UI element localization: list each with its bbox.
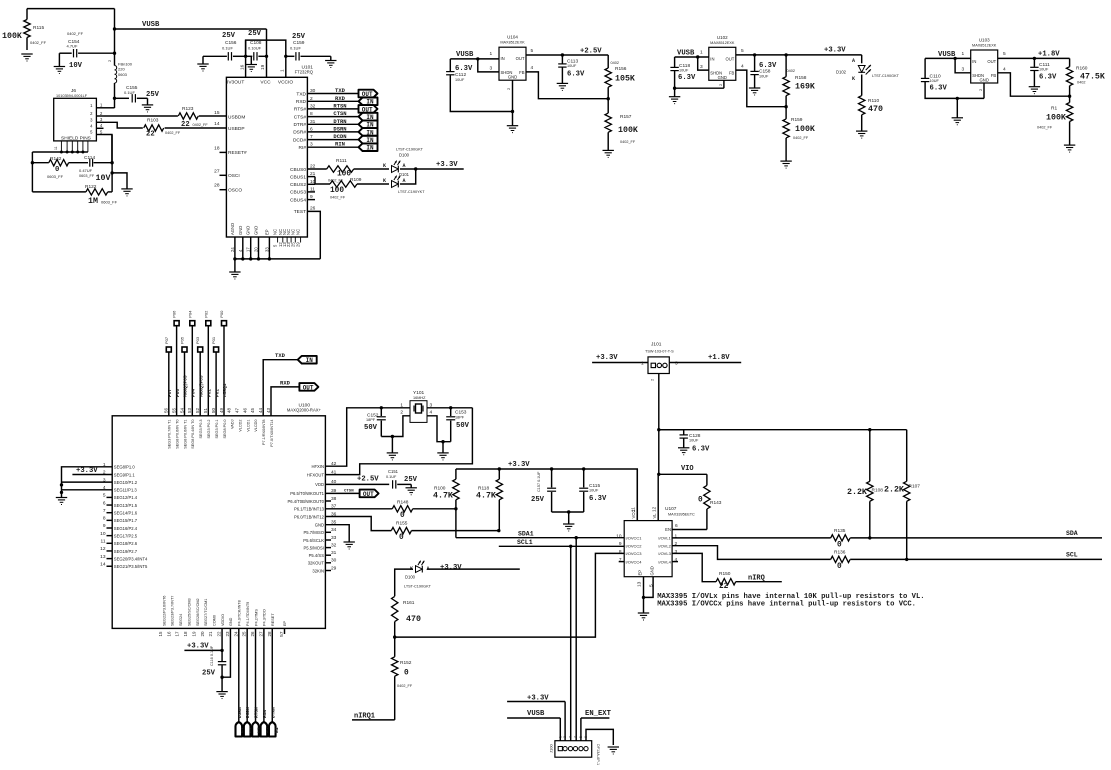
ground left of C156 — [197, 56, 208, 71]
svg-text:GND: GND — [229, 617, 233, 626]
svg-text:29: 29 — [296, 242, 301, 247]
svg-text:+3.3V: +3.3V — [440, 564, 462, 572]
svg-text:D100: D100 — [399, 153, 410, 158]
svg-text:16MHZ: 16MHZ — [413, 396, 426, 400]
svg-text:54: 54 — [179, 407, 184, 413]
svg-text:33: 33 — [331, 535, 337, 541]
svg-text:9: 9 — [619, 541, 622, 547]
svg-text:C151: C151 — [388, 469, 399, 474]
svg-text:SHIELD PINS: SHIELD PINS — [61, 136, 91, 142]
U107 IOVL4 stub — [672, 561, 678, 563]
U101 pin DTR# -> DTRN flag — [293, 118, 377, 129]
svg-text:P06: P06 — [175, 389, 181, 397]
svg-text:0: 0 — [404, 670, 409, 678]
wire VUSB drop to VCC — [266, 29, 268, 56]
svg-text:SEG25/SC/CM3: SEG25/SC/CM3 — [187, 598, 191, 626]
svg-text:R107: R107 — [909, 484, 921, 490]
capacitor C111 — [1030, 58, 1057, 86]
svg-text:R161: R161 — [403, 600, 415, 606]
ground U103 — [952, 98, 963, 124]
svg-text:I/OVCC3: I/OVCC3 — [626, 551, 643, 556]
svg-text:MAX8512EXK: MAX8512EXK — [972, 44, 997, 48]
svg-text:P07: P07 — [167, 389, 173, 397]
svg-text:100K: 100K — [2, 32, 22, 41]
svg-text:SEG8 P0.6/IN T1: SEG8 P0.6/IN T1 — [183, 420, 187, 449]
svg-text:P01: P01 — [211, 336, 216, 344]
svg-text:nIRQ: nIRQ — [748, 575, 765, 583]
wire pin43 to RXD flag — [271, 379, 299, 416]
svg-text:R111: R111 — [336, 158, 347, 164]
U100 port net names — [167, 375, 228, 397]
net +3.3V at VDDIO — [184, 628, 223, 652]
ground crystal left — [387, 437, 398, 460]
net +3.3V at J101 — [592, 354, 648, 363]
capacitor C113 — [558, 55, 585, 83]
wire junction to U107 IOVCC3 — [395, 553, 625, 637]
svg-text:EP: EP — [264, 229, 269, 235]
svg-text:100K: 100K — [618, 126, 638, 135]
U101 pin TXD -> TXD flag — [296, 87, 377, 98]
svg-text:14: 14 — [214, 121, 220, 127]
wire D100 cathode down — [395, 569, 413, 596]
net VUSB — [113, 21, 267, 31]
svg-text:TXD: TXD — [275, 352, 286, 359]
svg-text:MAX3395 I/OVLx pins have inter: MAX3395 I/OVLx pins have internal 10K pu… — [657, 593, 924, 601]
svg-text:2: 2 — [563, 736, 567, 738]
svg-text:10: 10 — [100, 531, 106, 537]
resistor R143 — [698, 474, 722, 529]
svg-text:MAX8512EXK: MAX8512EXK — [710, 41, 735, 45]
svg-text:0.1UF: 0.1UF — [386, 475, 397, 479]
svg-text:SEG3 P0.3: SEG3 P0.3 — [199, 420, 203, 439]
svg-text:100K: 100K — [1046, 114, 1066, 123]
svg-text:R160: R160 — [1076, 66, 1088, 72]
wire pin4 to gnd — [62, 489, 113, 491]
svg-text:100K: 100K — [795, 125, 815, 134]
svg-text:470: 470 — [406, 615, 421, 624]
svg-text:25: 25 — [290, 242, 295, 247]
svg-text:10V: 10V — [69, 62, 83, 70]
net +2.5V — [580, 48, 602, 56]
capacitor C112 on VUSB — [446, 59, 512, 112]
svg-text:31: 31 — [331, 550, 337, 556]
svg-text:RIN: RIN — [335, 141, 345, 148]
U101 pin CTS# -> CTSN flag — [294, 110, 378, 121]
svg-text:I/OVL1: I/OVL1 — [658, 536, 671, 541]
svg-text:EN_EXT: EN_EXT — [585, 710, 612, 718]
connector J101 — [641, 342, 678, 382]
svg-text:10UF: 10UF — [567, 64, 577, 68]
J6 pins 1-5 — [90, 103, 103, 135]
svg-text:22: 22 — [146, 131, 155, 139]
shield bus wire — [32, 152, 88, 192]
svg-text:DTRN: DTRN — [333, 118, 346, 125]
svg-text:RXD: RXD — [335, 95, 346, 102]
svg-text:RIN: RIN — [262, 710, 268, 718]
U101 pin CBUS2 — [290, 179, 316, 188]
svg-text:44: 44 — [258, 407, 263, 413]
U107 EP GND pins — [637, 566, 655, 599]
svg-text:SEG26/SC/CM2: SEG26/SC/CM2 — [196, 598, 200, 626]
svg-text:VLCD2: VLCD2 — [238, 420, 242, 432]
svg-text:0: 0 — [698, 497, 703, 505]
wire shield right vertical — [110, 135, 113, 192]
svg-text:R148: R148 — [397, 500, 409, 506]
svg-text:MAXQ|P05: MAXQ|P05 — [183, 375, 189, 397]
svg-text:17: 17 — [246, 247, 251, 252]
svg-text:21: 21 — [208, 631, 213, 637]
svg-text:P05: P05 — [180, 336, 185, 344]
svg-text:DCD#: DCD# — [293, 137, 306, 143]
svg-text:19: 19 — [191, 631, 196, 637]
resistor R123 — [178, 106, 208, 129]
svg-text:6.3V: 6.3V — [589, 495, 607, 503]
svg-text:RESET#: RESET# — [228, 150, 247, 156]
svg-text:LTST-C190GKT: LTST-C190GKT — [404, 585, 432, 589]
svg-text:+3.3V: +3.3V — [824, 47, 846, 55]
ground R110 — [856, 131, 867, 138]
svg-text:RI#: RI# — [299, 145, 307, 151]
svg-text:51: 51 — [203, 407, 208, 413]
wire pin1 to gnd — [60, 467, 112, 498]
svg-text:0.47UF: 0.47UF — [79, 168, 93, 173]
svg-text:OUT: OUT — [363, 491, 374, 498]
svg-text:EP: EP — [638, 570, 643, 576]
svg-text:25V: 25V — [292, 33, 306, 41]
wire J6 pin2 USBDM — [104, 115, 178, 117]
wire HFXIN to crystal pin1 — [325, 406, 410, 466]
resistor R155 — [391, 521, 411, 543]
wire R148 to junction — [413, 507, 458, 510]
svg-text:MAX3395 I/OVCCx pins have inte: MAX3395 I/OVCCx pins have internal pull-… — [657, 601, 916, 609]
svg-text:20: 20 — [254, 247, 259, 252]
U100 port terminals lower row — [164, 336, 219, 416]
svg-text:MAXQ|P03: MAXQ|P03 — [198, 375, 204, 397]
svg-text:P07: P07 — [164, 336, 169, 344]
resistor R1 — [1037, 96, 1073, 145]
svg-text:K: K — [852, 76, 855, 82]
wire to ground tap — [112, 173, 127, 189]
svg-text:R152: R152 — [400, 660, 412, 666]
svg-text:0.1UF: 0.1UF — [290, 46, 301, 51]
svg-text:0402_FF: 0402_FF — [193, 123, 209, 127]
svg-text:K: K — [383, 178, 386, 184]
svg-text:DCDN: DCDN — [245, 707, 251, 718]
wire TEST to gnd bus — [307, 211, 320, 259]
svg-text:R156: R156 — [615, 66, 627, 72]
svg-text:56: 56 — [164, 407, 169, 413]
svg-text:VADJ: VADJ — [231, 419, 235, 429]
capacitor C158 — [750, 55, 777, 88]
svg-text:4.7K: 4.7K — [433, 492, 453, 501]
capacitor C154 — [59, 29, 116, 70]
U101 pin27 OSCI — [214, 168, 240, 179]
svg-text:I/OVCC4: I/OVCC4 — [626, 559, 643, 564]
svg-text:32: 32 — [331, 542, 337, 548]
U102 GND wire — [718, 80, 724, 88]
svg-text:+3.3V: +3.3V — [187, 643, 209, 651]
svg-text:GND: GND — [254, 226, 259, 235]
svg-text:OUT: OUT — [725, 56, 734, 61]
svg-text:P7.0/TX0/INT14: P7.0/TX0/INT14 — [270, 420, 274, 447]
svg-text:R157: R157 — [620, 114, 632, 120]
capacitor C156 — [203, 32, 246, 61]
resistor R110 — [859, 96, 883, 132]
svg-text:0603_FF: 0603_FF — [47, 174, 64, 179]
svg-text:3: 3 — [569, 736, 573, 738]
svg-text:SCL1: SCL1 — [517, 539, 533, 546]
svg-text:+3.3V: +3.3V — [596, 354, 618, 362]
crystal pin4 wire — [427, 416, 451, 444]
svg-text:43: 43 — [266, 407, 271, 413]
svg-text:RXD: RXD — [280, 379, 291, 386]
svg-text:SEG8 P0.6/IN T0: SEG8 P0.6/IN T0 — [175, 420, 179, 449]
svg-text:0402: 0402 — [611, 61, 619, 65]
svg-text:0: 0 — [55, 166, 59, 174]
U103 SHDN wire — [955, 58, 971, 72]
svg-text:1: 1 — [400, 403, 403, 409]
svg-text:3V3OUT: 3V3OUT — [226, 80, 245, 86]
svg-text:J100: J100 — [549, 744, 554, 753]
svg-text:C157 0.1UF: C157 0.1UF — [537, 471, 541, 492]
IC U103 MAX8512 box — [971, 38, 998, 84]
svg-text:15: 15 — [158, 631, 163, 637]
wire J6 pin1 to VUSB — [104, 107, 115, 109]
svg-text:K: K — [383, 163, 386, 169]
svg-text:SEG10/P1.2: SEG10/P1.2 — [114, 480, 138, 485]
ground R159 — [780, 161, 791, 168]
svg-text:0402_FF: 0402_FF — [330, 196, 346, 200]
capacitor C128 — [659, 430, 710, 454]
pin19 wire VCC — [260, 55, 268, 78]
svg-text:U103: U103 — [979, 38, 990, 43]
IC U104 MAX8512 box — [499, 35, 526, 80]
svg-text:U107: U107 — [665, 506, 677, 512]
U107 VL pin12 — [652, 474, 659, 520]
svg-text:R155: R155 — [396, 521, 408, 527]
svg-text:14: 14 — [100, 561, 106, 567]
wire pin23 gnd — [222, 628, 230, 677]
U102 FB wire — [736, 64, 786, 107]
svg-text:SEG3 P0.2: SEG3 P0.2 — [207, 420, 211, 439]
ground under R115 — [21, 54, 32, 61]
svg-text:1: 1 — [280, 69, 286, 72]
svg-text:49: 49 — [219, 407, 224, 413]
capacitor C157 — [531, 469, 556, 512]
U100 right pin names — [287, 461, 336, 573]
U101 pin18 RESET# — [214, 145, 247, 156]
svg-text:D100: D100 — [405, 575, 416, 580]
svg-text:DTR#: DTR# — [293, 122, 306, 128]
ground U101 — [229, 259, 240, 279]
svg-text:DSRN: DSRN — [237, 707, 243, 718]
U101 pin RTS# -> RTSN flag — [294, 102, 378, 113]
svg-text:19: 19 — [260, 64, 266, 70]
svg-text:P03: P03 — [195, 336, 200, 344]
net +2.5V at VDD — [325, 476, 389, 485]
svg-text:6.3V: 6.3V — [692, 446, 710, 454]
wire R115 top to VUSB rail — [27, 9, 115, 29]
svg-text:18PF: 18PF — [366, 418, 376, 422]
capacitor C114 — [79, 155, 114, 183]
svg-text:55: 55 — [171, 407, 176, 413]
svg-text:1: 1 — [962, 51, 965, 57]
svg-text:470: 470 — [868, 105, 883, 114]
resistor R161 — [392, 596, 421, 637]
svg-text:FB: FB — [729, 70, 735, 75]
svg-text:5: 5 — [1003, 51, 1006, 57]
wire IOVL1 to R135 — [672, 537, 831, 539]
svg-text:GND: GND — [508, 75, 517, 80]
wire pin44 to TXD flag — [263, 352, 298, 416]
svg-text:OSCI: OSCI — [228, 173, 240, 179]
svg-text:4: 4 — [531, 65, 534, 71]
svg-text:HFXOUT: HFXOUT — [307, 472, 325, 477]
U107 EN pin6 — [665, 523, 678, 532]
svg-text:1: 1 — [558, 736, 562, 738]
ground C128 — [678, 448, 689, 455]
U101 ground bus — [235, 258, 320, 260]
svg-text:29: 29 — [331, 565, 337, 571]
svg-text:169K: 169K — [795, 83, 815, 92]
svg-text:GND: GND — [246, 226, 251, 235]
svg-text:12: 12 — [100, 546, 106, 552]
wire IOVL3 to R150 — [672, 553, 716, 581]
resistor R142 — [31, 156, 88, 179]
svg-text:I/OVL4: I/OVL4 — [658, 559, 671, 564]
ground right of C159 — [325, 56, 336, 67]
svg-text:11: 11 — [631, 507, 637, 512]
svg-text:SEG14/P1.6: SEG14/P1.6 — [114, 511, 138, 516]
svg-text:6: 6 — [675, 523, 678, 529]
svg-text:26: 26 — [250, 631, 255, 637]
ground pin35 — [344, 542, 355, 549]
svg-text:I/OVCC1: I/OVCC1 — [626, 536, 643, 541]
resistor R103 — [144, 118, 181, 139]
svg-text:SEG15/P1.7: SEG15/P1.7 — [114, 518, 138, 523]
capacitor C153 — [446, 408, 469, 442]
U101 pin GND 20 — [254, 226, 261, 261]
svg-text:38: 38 — [331, 496, 337, 502]
U100 top pin names — [168, 419, 274, 448]
IC U101 FT232RQ box — [226, 65, 313, 238]
capacitor C118 — [670, 57, 724, 90]
svg-text:3: 3 — [962, 67, 965, 73]
svg-text:VL: VL — [652, 513, 657, 519]
svg-text:CTS#: CTS# — [294, 114, 307, 120]
svg-text:I/OVL3: I/OVL3 — [658, 551, 671, 556]
U107 left pins IOVCC — [616, 533, 642, 564]
U101 pin EP 33 — [264, 229, 271, 260]
svg-text:SEG27/TC/CM1: SEG27/TC/CM1 — [204, 599, 208, 626]
svg-text:0402_FF: 0402_FF — [165, 131, 181, 135]
svg-text:0402_FF: 0402_FF — [793, 136, 809, 140]
svg-text:R109: R109 — [350, 177, 362, 183]
net SDA1 — [456, 509, 624, 540]
svg-text:+3.3V: +3.3V — [436, 161, 458, 169]
net SDA — [850, 530, 1102, 540]
svg-text:SEG3 P0.1: SEG3 P0.1 — [215, 420, 219, 439]
net SCL1 — [499, 539, 624, 548]
svg-text:+2.5V: +2.5V — [357, 476, 379, 484]
svg-text:4.7K: 4.7K — [476, 492, 496, 501]
svg-text:3: 3 — [490, 66, 493, 72]
svg-text:SEG8 P0.4/IN T0: SEG8 P0.4/IN T0 — [191, 420, 195, 449]
svg-text:11: 11 — [54, 146, 58, 150]
svg-text:TEST: TEST — [294, 209, 306, 215]
svg-text:R143: R143 — [710, 500, 722, 506]
U101 pin RXD -> RXD flag — [296, 95, 378, 106]
svg-text:18: 18 — [183, 631, 188, 637]
svg-text:IN: IN — [501, 56, 505, 61]
svg-text:P5.6/SCLK: P5.6/SCLK — [303, 538, 324, 543]
resistor R107 2.2K — [884, 430, 920, 560]
svg-text:R159: R159 — [791, 117, 803, 123]
svg-text:27: 27 — [258, 631, 263, 637]
svg-text:0402_FF: 0402_FF — [397, 684, 413, 688]
svg-text:25V: 25V — [146, 91, 160, 99]
svg-text:25V: 25V — [531, 496, 545, 504]
ground C158 — [749, 88, 760, 95]
ground U107 — [638, 597, 649, 620]
svg-text:0402_FF: 0402_FF — [1037, 126, 1053, 130]
resistor R159 — [783, 107, 815, 161]
svg-text:RESET: RESET — [271, 613, 275, 626]
svg-text:25V: 25V — [248, 30, 262, 38]
ground under C108 — [246, 56, 257, 71]
svg-text:P5.4/SS: P5.4/SS — [309, 553, 325, 558]
svg-text:A: A — [403, 163, 406, 169]
svg-text:0402: 0402 — [1077, 81, 1085, 85]
svg-text:GND: GND — [718, 75, 727, 80]
LED D101 — [383, 172, 425, 194]
svg-text:6: 6 — [103, 500, 106, 506]
svg-text:RTSN: RTSN — [333, 102, 346, 109]
svg-text:SCL: SCL — [1066, 552, 1078, 559]
ground C157 C115 — [563, 524, 574, 531]
U104 GND pin wire — [506, 80, 514, 126]
svg-text:10UF: 10UF — [1039, 68, 1049, 72]
svg-text:0402_FF: 0402_FF — [67, 31, 84, 36]
wire J6 pin3 USBDP — [104, 122, 143, 128]
svg-text:10103594-0001LF: 10103594-0001LF — [56, 94, 88, 98]
U102 OUT wire — [736, 48, 862, 57]
svg-text:28: 28 — [214, 183, 220, 189]
svg-text:0: 0 — [837, 563, 842, 571]
svg-text:48: 48 — [227, 407, 232, 413]
capacitor C110 — [921, 58, 984, 100]
svg-text:8: 8 — [103, 516, 106, 522]
svg-text:6: 6 — [584, 736, 588, 738]
U101 pin CBUS1 — [290, 171, 316, 180]
svg-text:9: 9 — [103, 523, 106, 529]
U103 FB wire — [998, 67, 1070, 97]
resistor R100 pullup — [433, 469, 459, 509]
wire SCL1 drop to J100 — [570, 546, 572, 740]
svg-text:5: 5 — [531, 48, 534, 54]
U103 OUT wire — [998, 51, 1070, 60]
svg-text:P6.4/T0B/WKOUT0: P6.4/T0B/WKOUT0 — [287, 499, 324, 504]
svg-text:FT232RQ: FT232RQ — [295, 70, 314, 75]
svg-text:USBDP: USBDP — [228, 126, 245, 132]
svg-text:R142: R142 — [50, 156, 62, 162]
ground at shield — [121, 189, 132, 196]
svg-text:DF13A-6P-1.25H: DF13A-6P-1.25H — [596, 744, 600, 765]
svg-text:P4.1/TDI/INT9: P4.1/TDI/INT9 — [246, 602, 250, 626]
svg-text:CBUS1: CBUS1 — [290, 174, 306, 180]
resistor R109 — [330, 177, 362, 200]
svg-text:MAXQ2000-RAX+: MAXQ2000-RAX+ — [287, 408, 322, 413]
